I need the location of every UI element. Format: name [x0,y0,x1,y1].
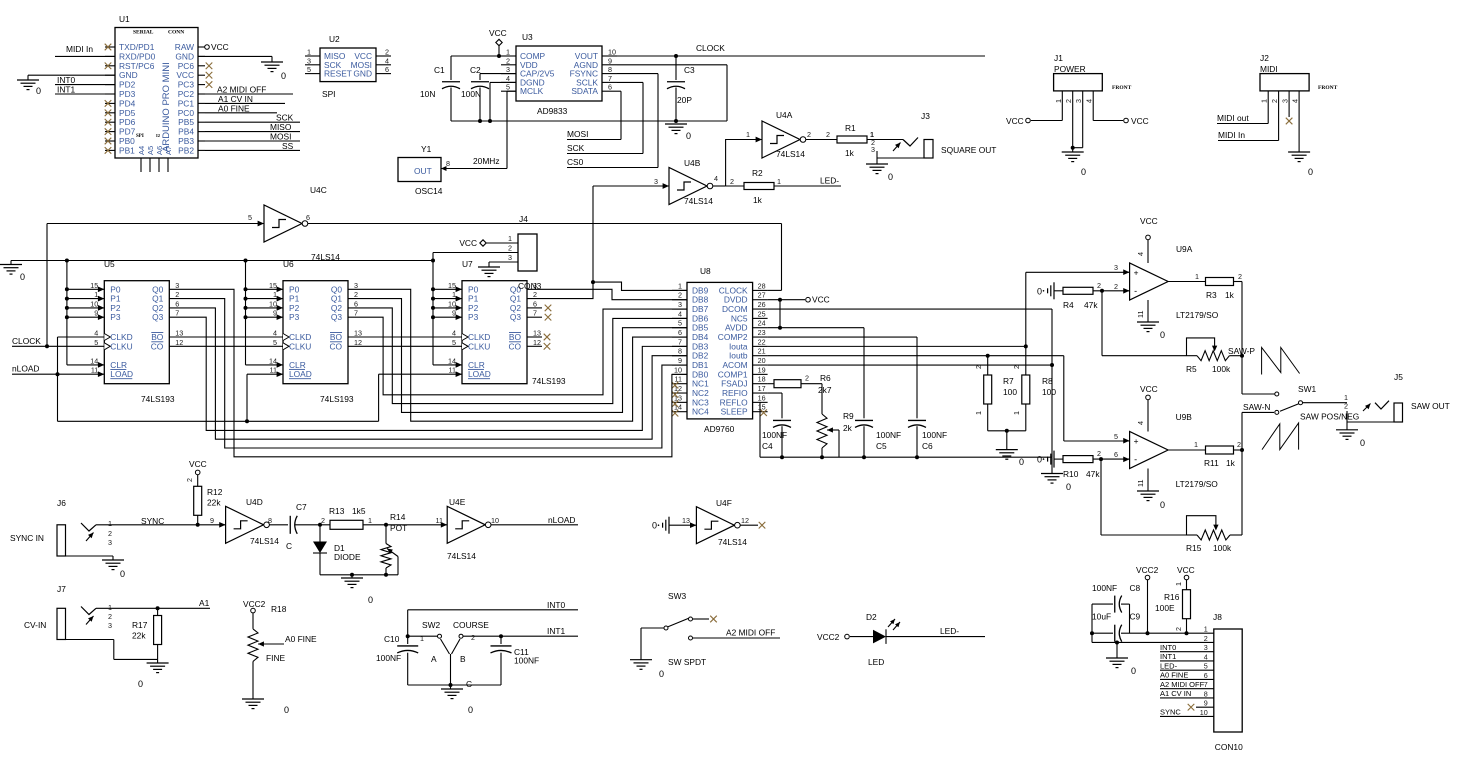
svg-text:2: 2 [354,290,358,299]
svg-text:SW2: SW2 [422,620,440,630]
svg-text:CS0: CS0 [567,157,584,167]
svg-text:1: 1 [368,516,372,525]
svg-text:100N: 100N [461,89,481,99]
svg-text:20P: 20P [677,95,692,105]
svg-text:2: 2 [730,177,734,186]
svg-text:R16: R16 [1164,592,1180,602]
svg-text:3: 3 [508,253,512,262]
svg-text:1k5: 1k5 [352,506,366,516]
svg-text:100k: 100k [1212,364,1231,374]
svg-text:14: 14 [448,356,456,365]
svg-text:C3: C3 [684,65,695,75]
svg-text:SAW POS/NEG: SAW POS/NEG [1300,412,1359,422]
svg-text:1: 1 [420,634,424,643]
svg-text:1k: 1k [753,195,763,205]
svg-text:5: 5 [273,338,277,347]
svg-text:0: 0 [120,569,125,579]
svg-text:C9: C9 [1130,612,1141,622]
svg-text:100NF: 100NF [762,430,787,440]
svg-text:3: 3 [307,56,311,65]
svg-text:7: 7 [533,309,537,318]
svg-text:D2: D2 [866,612,877,622]
svg-text:A7: A7 [164,146,173,155]
svg-text:R15: R15 [1186,543,1202,553]
svg-text:SAW OUT: SAW OUT [1411,401,1450,411]
svg-text:R10: R10 [1063,469,1079,479]
svg-text:5: 5 [248,213,252,222]
svg-text:2: 2 [1097,281,1101,290]
svg-text:100: 100 [1042,387,1056,397]
svg-text:SYNC: SYNC [1160,708,1181,717]
svg-text:100: 100 [1003,387,1017,397]
svg-text:R12: R12 [207,487,223,497]
svg-text:0: 0 [652,521,657,531]
svg-text:C: C [466,679,472,689]
svg-text:2: 2 [471,633,475,642]
svg-text:SCK: SCK [567,143,585,153]
svg-text:15: 15 [269,281,277,290]
svg-text:3: 3 [1204,643,1208,652]
svg-text:2: 2 [1204,634,1208,643]
svg-text:2: 2 [185,478,194,482]
svg-text:INT1: INT1 [1160,652,1176,661]
svg-text:1: 1 [1012,411,1021,415]
svg-text:12: 12 [741,516,749,525]
svg-text:POT: POT [390,523,407,533]
svg-text:1: 1 [108,603,112,612]
svg-text:28: 28 [758,281,766,290]
svg-text:6: 6 [533,299,537,308]
svg-text:Q3: Q3 [331,312,343,322]
svg-text:AD9833: AD9833 [537,106,568,116]
svg-text:J7: J7 [57,584,66,594]
svg-text:0: 0 [1160,500,1165,510]
svg-text:SAW-N: SAW-N [1243,402,1270,412]
svg-text:8: 8 [268,516,272,525]
svg-text:0: 0 [1066,482,1071,492]
svg-text:3: 3 [1074,99,1083,103]
svg-text:A4: A4 [137,146,146,155]
svg-text:0: 0 [1037,455,1042,465]
svg-text:U4C: U4C [310,185,327,195]
svg-text:11: 11 [449,366,456,375]
svg-text:R5: R5 [1186,364,1197,374]
svg-text:INT1: INT1 [547,626,565,636]
svg-text:R18: R18 [271,604,287,614]
svg-text:SERIAL: SERIAL [133,30,154,36]
svg-text:0: 0 [686,131,691,141]
svg-text:1: 1 [678,281,682,290]
svg-text:26: 26 [758,300,766,309]
svg-text:9: 9 [608,56,612,65]
svg-text:4: 4 [1136,421,1145,425]
svg-text:SW1: SW1 [1298,384,1316,394]
svg-text:LED-: LED- [820,176,839,186]
svg-text:6: 6 [175,299,179,308]
svg-text:U4F: U4F [716,498,732,508]
svg-text:10: 10 [448,299,456,308]
svg-text:+: + [1134,436,1139,446]
svg-text:100NF: 100NF [376,653,401,663]
svg-text:0: 0 [368,595,373,605]
svg-text:LOAD: LOAD [468,369,491,379]
svg-text:25: 25 [758,309,766,318]
svg-text:1: 1 [94,290,98,299]
svg-text:20: 20 [758,356,766,365]
svg-text:INT0: INT0 [1160,643,1176,652]
svg-text:1: 1 [746,130,750,139]
svg-text:R3: R3 [1206,290,1217,300]
svg-text:100E: 100E [1155,603,1175,613]
svg-text:22k: 22k [132,631,146,641]
svg-text:7: 7 [354,309,358,318]
svg-text:13: 13 [533,329,541,338]
svg-text:P3: P3 [468,312,479,322]
svg-text:VCC: VCC [1177,565,1195,575]
svg-text:74LS193: 74LS193 [320,394,354,404]
svg-text:19: 19 [758,365,766,374]
svg-text:VCC: VCC [1131,116,1149,126]
svg-text:R2: R2 [752,168,763,178]
svg-text:2: 2 [385,48,389,57]
svg-text:LOAD: LOAD [289,369,312,379]
svg-text:2: 2 [1270,99,1279,103]
svg-text:4: 4 [94,329,98,338]
svg-text:ARDUINO PRO MINI: ARDUINO PRO MINI [161,62,172,152]
svg-text:CON10: CON10 [1215,742,1243,752]
svg-text:+: + [1134,268,1139,278]
svg-text:A1: A1 [199,598,210,608]
svg-text:R7: R7 [1003,376,1014,386]
svg-text:OSC14: OSC14 [415,186,443,196]
svg-text:6: 6 [608,83,612,92]
svg-text:C7: C7 [296,502,307,512]
svg-text:3: 3 [108,538,112,547]
svg-text:5: 5 [1114,432,1118,441]
svg-text:11: 11 [1136,480,1145,487]
svg-text:0: 0 [468,705,473,715]
svg-text:MOSI: MOSI [567,129,588,139]
svg-text:0: 0 [36,86,41,96]
svg-text:CO: CO [329,341,342,351]
svg-text:1: 1 [108,519,112,528]
svg-text:1: 1 [1195,272,1199,281]
svg-text:4: 4 [385,56,389,65]
svg-text:U4A: U4A [776,110,793,120]
svg-text:A2 MIDI OFF: A2 MIDI OFF [726,628,775,638]
svg-text:FRONT: FRONT [1318,85,1338,91]
svg-text:74LS193: 74LS193 [532,376,566,386]
svg-text:2: 2 [805,374,809,383]
svg-text:A6: A6 [155,146,164,155]
svg-text:U4B: U4B [684,158,701,168]
svg-text:1k: 1k [1226,458,1236,468]
svg-text:SW3: SW3 [668,591,686,601]
svg-text:VCC2: VCC2 [817,632,840,642]
svg-text:2: 2 [175,290,179,299]
svg-text:C4: C4 [762,441,773,451]
svg-text:R4: R4 [1063,300,1074,310]
svg-text:C1: C1 [434,65,445,75]
svg-text:nLOAD: nLOAD [12,364,39,374]
svg-text:11: 11 [1136,311,1145,318]
svg-text:3: 3 [175,281,179,290]
svg-text:22: 22 [758,337,766,346]
svg-text:74LS14: 74LS14 [447,551,476,561]
svg-text:SS: SS [282,141,294,151]
svg-text:9: 9 [1204,699,1208,708]
svg-text:11: 11 [91,366,98,375]
svg-text:VCC: VCC [211,42,229,52]
svg-text:47k: 47k [1084,300,1098,310]
svg-text:7: 7 [175,309,179,318]
svg-text:R1: R1 [845,123,856,133]
svg-text:SYNC: SYNC [141,516,164,526]
svg-text:1: 1 [506,48,510,57]
svg-text:47k: 47k [1086,469,1100,479]
svg-text:0: 0 [1160,330,1165,340]
svg-text:9: 9 [273,309,277,318]
svg-text:8: 8 [446,159,450,168]
svg-text:5: 5 [1204,662,1208,671]
svg-text:LT2179/SO: LT2179/SO [1176,310,1219,320]
svg-text:C10: C10 [384,634,400,644]
svg-text:1k: 1k [1225,290,1235,300]
svg-text:J8: J8 [1213,612,1222,622]
svg-text:2: 2 [1012,365,1021,369]
svg-text:1: 1 [1204,625,1208,634]
svg-text:LED: LED [868,657,884,667]
svg-text:A0 FINE: A0 FINE [1160,671,1188,680]
svg-text:C: C [286,541,292,551]
svg-text:CO: CO [508,341,521,351]
svg-text:B: B [460,654,466,664]
svg-text:CLOCK: CLOCK [696,43,725,53]
svg-text:MCLK: MCLK [520,86,544,96]
svg-text:1: 1 [452,290,456,299]
svg-text:Q3: Q3 [152,312,164,322]
svg-text:13: 13 [175,329,183,338]
svg-text:4: 4 [1136,252,1145,256]
svg-text:SLEEP: SLEEP [721,407,748,417]
svg-text:R11: R11 [1204,458,1219,468]
svg-text:74LS14: 74LS14 [718,537,747,547]
svg-text:U9A: U9A [1176,244,1193,254]
svg-text:R8: R8 [1042,376,1053,386]
svg-text:2: 2 [1174,627,1183,631]
svg-text:-: - [1134,455,1137,465]
svg-text:NC4: NC4 [692,407,709,417]
svg-text:DIODE: DIODE [334,552,361,562]
svg-text:15: 15 [448,281,456,290]
svg-text:CLKU: CLKU [468,341,490,351]
svg-text:U8: U8 [700,266,711,276]
svg-text:INT0: INT0 [57,75,75,85]
svg-text:100k: 100k [1213,543,1232,553]
svg-text:VCC: VCC [1140,384,1158,394]
svg-text:3: 3 [108,621,112,630]
svg-text:4: 4 [1085,99,1094,103]
svg-text:U1: U1 [119,14,130,24]
svg-text:PB2: PB2 [178,145,194,155]
svg-text:74LS14: 74LS14 [250,536,279,546]
svg-text:5: 5 [94,338,98,347]
svg-text:-: - [1134,286,1137,296]
svg-text:MIDI In: MIDI In [1218,130,1245,140]
svg-text:CV-IN: CV-IN [24,620,46,630]
svg-text:1: 1 [508,234,512,243]
svg-text:5: 5 [307,65,311,74]
svg-text:Y1: Y1 [421,144,432,154]
svg-text:VCC: VCC [489,28,507,38]
svg-text:2: 2 [508,244,512,253]
svg-text:SQUARE OUT: SQUARE OUT [941,145,996,155]
svg-text:3: 3 [354,281,358,290]
svg-text:J2: J2 [1260,53,1269,63]
svg-text:10uF: 10uF [1092,612,1111,622]
svg-text:MIDI out: MIDI out [1217,113,1249,123]
svg-text:2: 2 [108,612,112,621]
svg-text:U3: U3 [522,32,533,42]
svg-text:A0 FINE: A0 FINE [218,103,250,113]
svg-text:12: 12 [175,338,183,347]
svg-text:J4: J4 [519,214,528,224]
svg-text:8: 8 [1204,689,1208,698]
svg-text:C8: C8 [1130,583,1141,593]
svg-text:12: 12 [354,338,362,347]
svg-text:2: 2 [506,56,510,65]
svg-text:INT1: INT1 [57,85,75,95]
svg-text:1: 1 [974,411,983,415]
svg-text:0: 0 [659,669,664,679]
svg-text:CLOCK: CLOCK [12,336,41,346]
svg-text:J6: J6 [57,498,66,508]
svg-text:13: 13 [682,516,690,525]
svg-text:U7: U7 [462,259,473,269]
svg-text:U4E: U4E [449,497,466,507]
svg-text:6: 6 [678,328,682,337]
svg-text:4: 4 [452,329,456,338]
svg-text:A0 FINE: A0 FINE [285,634,317,644]
svg-text:POWER: POWER [1054,64,1086,74]
svg-text:R9: R9 [843,411,854,421]
svg-text:0: 0 [1360,438,1365,448]
svg-text:VCC: VCC [812,295,830,305]
svg-text:10N: 10N [420,89,435,99]
svg-text:RESET: RESET [324,69,352,79]
svg-text:1: 1 [777,177,781,186]
svg-text:LOAD: LOAD [110,369,133,379]
svg-text:6: 6 [385,65,389,74]
svg-text:J1: J1 [1054,53,1063,63]
svg-text:5: 5 [506,83,510,92]
svg-text:2: 2 [678,291,682,300]
svg-text:8: 8 [608,65,612,74]
svg-text:A: A [431,654,437,664]
svg-text:10: 10 [269,299,277,308]
svg-text:Q3: Q3 [510,312,522,322]
svg-text:C5: C5 [876,441,887,451]
svg-text:LT2179/SO: LT2179/SO [1176,479,1219,489]
svg-text:2: 2 [974,365,983,369]
svg-text:23: 23 [758,328,766,337]
svg-text:16: 16 [758,393,766,402]
svg-text:3: 3 [506,65,510,74]
svg-text:2k7: 2k7 [818,385,832,395]
svg-text:J3: J3 [921,111,930,121]
svg-text:LED-: LED- [940,626,959,636]
svg-text:SAW-P: SAW-P [1228,346,1255,356]
svg-text:LED-: LED- [1160,661,1178,670]
svg-text:3: 3 [678,300,682,309]
svg-text:100NF: 100NF [514,656,539,666]
svg-text:1: 1 [1260,99,1269,103]
svg-text:GND: GND [353,69,372,79]
svg-text:1: 1 [307,48,311,57]
svg-text:74LS14: 74LS14 [776,149,805,159]
svg-text:100NF: 100NF [876,430,901,440]
svg-text:0: 0 [1019,457,1024,467]
svg-text:22k: 22k [207,498,221,508]
svg-text:P3: P3 [110,312,121,322]
svg-text:18: 18 [758,375,766,384]
svg-text:74LS14: 74LS14 [684,196,713,206]
svg-text:21: 21 [758,347,766,356]
svg-text:0: 0 [888,172,893,182]
svg-text:2: 2 [1237,440,1241,449]
svg-text:3: 3 [1281,99,1290,103]
svg-text:2: 2 [1238,272,1242,281]
svg-text:A5: A5 [146,146,155,155]
svg-text:4: 4 [1291,99,1300,103]
svg-text:VCC: VCC [1140,216,1158,226]
svg-text:7: 7 [608,74,612,83]
svg-text:12: 12 [533,338,541,347]
svg-text:R17: R17 [132,620,148,630]
svg-text:A2 MIDI OFF: A2 MIDI OFF [1160,680,1205,689]
svg-text:2k: 2k [843,423,853,433]
svg-text:SPI: SPI [136,134,144,139]
svg-text:CONN: CONN [168,30,184,36]
svg-text:AD9760: AD9760 [704,424,735,434]
svg-text:14: 14 [269,356,277,365]
svg-text:6: 6 [1204,671,1208,680]
svg-text:2: 2 [1064,99,1073,103]
svg-text:VCC: VCC [189,459,207,469]
svg-text:74LS193: 74LS193 [141,394,175,404]
svg-text:17: 17 [758,384,766,393]
svg-text:4: 4 [273,329,277,338]
svg-text:INT0: INT0 [547,600,565,610]
svg-text:U9B: U9B [1176,412,1193,422]
svg-text:R6: R6 [820,373,831,383]
svg-text:VCC: VCC [1006,116,1024,126]
svg-text:OUT: OUT [414,166,432,176]
svg-text:10: 10 [90,299,98,308]
svg-text:0: 0 [1037,286,1042,296]
svg-text:0: 0 [1131,666,1136,676]
svg-text:27: 27 [758,291,766,300]
svg-text:U2: U2 [329,34,340,44]
svg-text:6: 6 [1114,450,1118,459]
svg-text:0: 0 [1081,167,1086,177]
svg-text:1: 1 [1174,582,1183,586]
svg-text:4: 4 [714,174,718,183]
svg-text:7: 7 [1204,680,1208,689]
svg-text:COURSE: COURSE [453,620,489,630]
svg-text:C6: C6 [922,441,933,451]
svg-text:2: 2 [826,130,830,139]
